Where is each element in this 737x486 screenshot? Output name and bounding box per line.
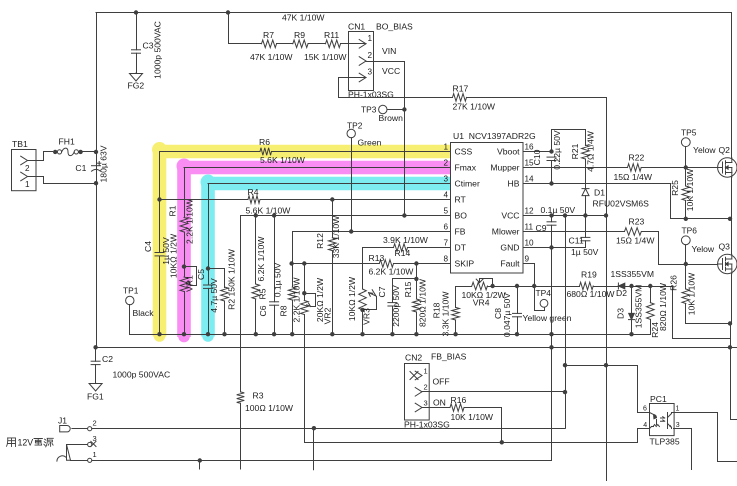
resistor R18 bbox=[432, 287, 472, 337]
wire primary ground rail bbox=[93, 345, 737, 349]
wire fuse to bus bbox=[81, 150, 99, 154]
svg-text:TP2: TP2 bbox=[347, 121, 363, 131]
svg-text:D2: D2 bbox=[616, 288, 627, 298]
resistor R19 bbox=[567, 270, 616, 299]
svg-text:OFF: OFF bbox=[433, 376, 450, 386]
svg-text:1: 1 bbox=[443, 143, 448, 152]
resistor R13 bbox=[369, 253, 415, 276]
svg-text:VCC: VCC bbox=[382, 66, 400, 76]
wire analog ground rail bbox=[130, 334, 651, 336]
svg-text:1: 1 bbox=[25, 180, 30, 189]
svg-text:Black: Black bbox=[133, 308, 155, 318]
svg-text:R14: R14 bbox=[395, 248, 411, 258]
svg-text:Yellow green: Yellow green bbox=[523, 313, 572, 323]
svg-text:33K 1/10W: 33K 1/10W bbox=[331, 215, 341, 258]
svg-text:1: 1 bbox=[676, 406, 680, 413]
svg-text:GND: GND bbox=[500, 243, 519, 253]
svg-text:6.2K 1/10W: 6.2K 1/10W bbox=[369, 266, 415, 276]
svg-text:R23: R23 bbox=[629, 216, 645, 226]
svg-text:C5: C5 bbox=[196, 269, 206, 280]
wire PC1 pin3 output bbox=[674, 429, 692, 470]
resistor R4 bbox=[246, 187, 292, 216]
wire R17 to VCC rail vertical bbox=[467, 98, 607, 216]
svg-text:820Ω 1/10W: 820Ω 1/10W bbox=[418, 278, 428, 327]
wire BO to R3 vertical bbox=[240, 216, 242, 470]
resistor R21 bbox=[570, 130, 596, 188]
svg-text:R8: R8 bbox=[279, 305, 289, 316]
capacitor C4 bbox=[143, 237, 171, 265]
wire FB left vertical to SKIP bbox=[292, 232, 294, 264]
svg-text:2: 2 bbox=[443, 159, 448, 168]
wire R23 to Q3 gate bbox=[642, 232, 718, 267]
potentiometer VR3 bbox=[347, 248, 377, 337]
svg-text:TP6: TP6 bbox=[682, 226, 698, 236]
U1 pin 6 FB bbox=[443, 223, 465, 237]
svg-text:5.6K 1/10W: 5.6K 1/10W bbox=[246, 206, 292, 216]
wire 12V feed vertical x565 bbox=[563, 216, 567, 429]
resistor R2 bbox=[209, 248, 237, 336]
svg-text:TP4: TP4 bbox=[536, 288, 552, 298]
svg-text:47K 1/10W: 47K 1/10W bbox=[250, 52, 293, 62]
svg-text:3: 3 bbox=[93, 434, 97, 443]
svg-text:R6: R6 bbox=[259, 137, 270, 147]
svg-text:TP1: TP1 bbox=[123, 285, 139, 295]
test point TP4 bbox=[523, 287, 572, 324]
svg-text:1000p 500VAC: 1000p 500VAC bbox=[153, 21, 163, 79]
svg-text:4.7µ 50V: 4.7µ 50V bbox=[209, 278, 219, 313]
svg-text:R25: R25 bbox=[670, 180, 680, 196]
highlight cyan Ctimer net bbox=[201, 175, 452, 342]
svg-text:8: 8 bbox=[443, 255, 448, 264]
opto-coupler PC1 TLP385 bbox=[643, 394, 680, 447]
resistor R25 bbox=[670, 168, 695, 222]
svg-text:3: 3 bbox=[443, 175, 448, 184]
svg-text:SKIP: SKIP bbox=[455, 259, 475, 269]
svg-text:TLP385: TLP385 bbox=[650, 437, 680, 447]
op-amp U1 NCV1397ADR2G controller bbox=[451, 131, 536, 273]
resistor R24 bbox=[647, 282, 668, 338]
potentiometer VR2 bbox=[301, 264, 333, 443]
U1 pin 10 GND bbox=[500, 239, 534, 253]
wire feedback line y442 bbox=[305, 442, 638, 444]
svg-text:2.2K 1/10W: 2.2K 1/10W bbox=[291, 277, 301, 323]
svg-text:Q3: Q3 bbox=[719, 242, 731, 252]
wire CSS vertical yellow bbox=[159, 152, 161, 335]
svg-text:R4: R4 bbox=[248, 187, 259, 197]
resistor R9 bbox=[282, 13, 325, 48]
wire R7-R9 bbox=[277, 43, 293, 45]
capacitor C5 bbox=[196, 269, 219, 313]
svg-text:10KΩ 1/2W: 10KΩ 1/2W bbox=[347, 276, 357, 321]
svg-text:TP5: TP5 bbox=[681, 127, 697, 137]
resistor R3 bbox=[237, 390, 294, 413]
wire Mupper pin15 to R22 bbox=[523, 167, 628, 169]
svg-text:3: 3 bbox=[368, 68, 373, 77]
wire main HV bus top bbox=[96, 12, 732, 14]
resistor R26 bbox=[669, 264, 733, 326]
svg-text:R22: R22 bbox=[629, 153, 645, 163]
svg-text:Mupper: Mupper bbox=[490, 163, 519, 173]
wire CSS net pin1 bbox=[160, 151, 451, 153]
wire bus to R7 bbox=[226, 10, 262, 43]
svg-text:1: 1 bbox=[93, 450, 97, 459]
svg-text:R26: R26 bbox=[669, 275, 679, 291]
node CSS-rail bbox=[157, 332, 161, 336]
svg-text:5: 5 bbox=[443, 207, 448, 216]
resistor R14 bbox=[383, 235, 429, 258]
wire Mlower pin11 to R23 bbox=[523, 231, 625, 233]
svg-text:HB: HB bbox=[508, 179, 520, 189]
wire FB net pin6 bbox=[293, 231, 451, 233]
wire TB1 pin2 to fuse bbox=[37, 152, 53, 161]
resistor R12 bbox=[315, 197, 341, 336]
wire GND vertical down bbox=[549, 248, 553, 461]
wire Fault line bbox=[493, 287, 731, 339]
test point TP2 bbox=[347, 121, 382, 234]
resistor R8 bbox=[279, 264, 302, 337]
svg-text:C7: C7 bbox=[377, 286, 387, 297]
svg-text:D3: D3 bbox=[615, 308, 625, 319]
capacitor C1 electrolytic bbox=[75, 145, 108, 182]
svg-text:R9: R9 bbox=[294, 30, 305, 40]
resistor R1 bbox=[168, 198, 195, 244]
svg-text:C4: C4 bbox=[143, 241, 153, 252]
wire Fault pin9 stub bbox=[524, 264, 537, 289]
svg-text:PH-1x03SG: PH-1x03SG bbox=[404, 419, 450, 429]
highlight magenta Fmax net bbox=[177, 159, 452, 343]
resistor R6 bbox=[259, 137, 306, 165]
wire PC1 pin1 output bbox=[674, 413, 737, 462]
svg-text:2: 2 bbox=[25, 164, 30, 173]
svg-text:47K 1/10W: 47K 1/10W bbox=[282, 13, 325, 23]
svg-text:R1: R1 bbox=[168, 205, 178, 216]
svg-text:VIN: VIN bbox=[382, 46, 396, 56]
svg-text:180µ 63V: 180µ 63V bbox=[99, 145, 109, 182]
svg-text:0.1µ 50V: 0.1µ 50V bbox=[541, 205, 576, 215]
ground FG1 bbox=[87, 383, 104, 401]
svg-text:FB_BIAS: FB_BIAS bbox=[431, 351, 467, 361]
wire CN1 pin3 to R17 bbox=[339, 78, 453, 98]
svg-text:7: 7 bbox=[443, 239, 448, 248]
svg-text:27K 1/10W: 27K 1/10W bbox=[453, 102, 496, 112]
svg-text:Yelow: Yelow bbox=[693, 145, 716, 155]
wire Ctimer vertical cyan bbox=[206, 184, 210, 337]
svg-text:R17: R17 bbox=[453, 83, 469, 93]
capacitor C3 bbox=[132, 10, 163, 79]
resistor R17 bbox=[453, 83, 496, 111]
svg-text:VR2: VR2 bbox=[323, 307, 333, 324]
resistor R16 bbox=[429, 395, 494, 422]
wire BO net pin5 bbox=[241, 215, 451, 217]
svg-text:3: 3 bbox=[676, 422, 680, 429]
wire R11 to CN1 pin1 bbox=[341, 43, 349, 45]
wire Fmax vertical magenta bbox=[182, 168, 186, 337]
svg-text:RFU02VSM6S: RFU02VSM6S bbox=[593, 198, 650, 208]
svg-text:Fault: Fault bbox=[500, 259, 520, 269]
svg-text:1000p 500VAC: 1000p 500VAC bbox=[113, 369, 171, 379]
wire R9-R11 bbox=[308, 43, 326, 45]
wire GND pin10 line bbox=[523, 247, 585, 249]
U1 pin 7 DT bbox=[443, 239, 466, 253]
wire Vboot pin16 bbox=[523, 130, 586, 154]
svg-text:0.047µ 50V: 0.047µ 50V bbox=[502, 293, 512, 337]
capacitor C7 bbox=[377, 279, 417, 337]
U1 pin 1 CSS bbox=[443, 143, 472, 157]
svg-text:10: 10 bbox=[525, 239, 535, 248]
svg-text:Fmax: Fmax bbox=[455, 163, 477, 173]
capacitor C2 bbox=[91, 347, 170, 383]
svg-text:0.22µ 50V: 0.22µ 50V bbox=[552, 130, 562, 170]
svg-text:PC1: PC1 bbox=[650, 394, 667, 404]
svg-text:1: 1 bbox=[368, 34, 373, 43]
capacitor C10 bbox=[532, 130, 562, 186]
svg-text:BO_BIAS: BO_BIAS bbox=[376, 22, 413, 32]
wire R17 rail down to bottom bbox=[606, 216, 608, 482]
U1 pin 11 Mlower bbox=[492, 223, 534, 237]
svg-text:C6: C6 bbox=[258, 305, 268, 316]
ground FG2 bbox=[128, 73, 145, 91]
transistor Q2 bbox=[693, 145, 737, 177]
connector CN2 FB_BIAS bbox=[404, 351, 467, 429]
resistor R23 bbox=[616, 216, 655, 245]
svg-text:R2 150K 1/10W: R2 150K 1/10W bbox=[227, 248, 237, 310]
wire Ctimer net pin3 bbox=[208, 183, 451, 185]
svg-text:FG1: FG1 bbox=[87, 391, 104, 401]
svg-text:TP3: TP3 bbox=[361, 104, 377, 114]
U1 pin 5 BO bbox=[443, 207, 467, 221]
svg-text:5.6K 1/10W: 5.6K 1/10W bbox=[260, 155, 306, 165]
svg-text:10KΩ 1/2W: 10KΩ 1/2W bbox=[168, 233, 178, 278]
wire Q3 drain bbox=[731, 219, 733, 255]
svg-text:1SS355VM: 1SS355VM bbox=[634, 285, 644, 328]
svg-text:2: 2 bbox=[424, 383, 428, 392]
svg-text:100Ω 1/10W: 100Ω 1/10W bbox=[245, 403, 294, 413]
svg-text:6: 6 bbox=[643, 406, 647, 413]
svg-text:Green: Green bbox=[358, 138, 382, 148]
svg-text:0.1µ 50V: 0.1µ 50V bbox=[272, 262, 282, 297]
svg-text:C1: C1 bbox=[75, 163, 86, 173]
svg-text:FH1: FH1 bbox=[59, 137, 75, 147]
test point TP1 bbox=[123, 285, 154, 334]
wire J1 pin2 12V line bbox=[92, 426, 565, 470]
U1 pin 8 SKIP bbox=[443, 255, 474, 269]
svg-text:FB: FB bbox=[455, 227, 466, 237]
wire RT net pin4 bbox=[157, 197, 450, 201]
svg-text:1µ 50V: 1µ 50V bbox=[571, 247, 599, 257]
svg-text:10K 1/10W: 10K 1/10W bbox=[687, 272, 697, 315]
wire right HV vertical to Q2 drain bbox=[731, 13, 733, 159]
svg-text:3.3K 1/10W: 3.3K 1/10W bbox=[441, 291, 451, 337]
svg-text:12V: 12V bbox=[18, 438, 34, 448]
terminal block TB1 bbox=[12, 139, 37, 191]
svg-text:10K 1/10W: 10K 1/10W bbox=[451, 412, 494, 422]
svg-text:11: 11 bbox=[525, 223, 534, 232]
svg-text:Vboot: Vboot bbox=[497, 147, 520, 157]
resistor R22 bbox=[614, 153, 653, 182]
svg-text:4.7Ω 1/4W: 4.7Ω 1/4W bbox=[586, 130, 596, 172]
capacitor C9 bbox=[536, 216, 557, 250]
resistor R11 bbox=[304, 30, 347, 62]
potentiometer VR4 bbox=[462, 279, 507, 308]
svg-text:3.9K 1/10W: 3.9K 1/10W bbox=[383, 235, 429, 245]
wire VCC pin12 line bbox=[523, 205, 608, 218]
resistor R5 bbox=[252, 213, 268, 336]
svg-text:4: 4 bbox=[643, 422, 647, 429]
test point TP3 bbox=[361, 104, 407, 123]
svg-text:R5: R5 bbox=[258, 288, 268, 299]
svg-text:Ctimer: Ctimer bbox=[455, 179, 480, 189]
svg-text:R19: R19 bbox=[581, 270, 597, 280]
svg-text:R21: R21 bbox=[570, 143, 580, 159]
svg-text:Mlower: Mlower bbox=[492, 227, 520, 237]
U1 pin 3 Ctimer bbox=[443, 175, 480, 189]
svg-text:VCC: VCC bbox=[501, 211, 519, 221]
wire CN1 pin2 VCC down to TP3 node bbox=[374, 62, 405, 216]
U1 pin 15 Mupper bbox=[490, 159, 534, 173]
wire PC1 pin6 bbox=[638, 412, 650, 414]
svg-text:VR3: VR3 bbox=[362, 308, 372, 325]
svg-text:3: 3 bbox=[424, 399, 428, 408]
wire left input vertical bbox=[96, 13, 98, 348]
svg-text:RT: RT bbox=[455, 195, 467, 205]
svg-text:J1: J1 bbox=[58, 416, 67, 426]
wire R22 to Q2 gate bbox=[641, 165, 718, 169]
U1 pin 4 RT bbox=[443, 191, 466, 205]
resistor R15 bbox=[403, 264, 428, 337]
svg-text:6: 6 bbox=[443, 223, 448, 232]
fuse FH1 bbox=[53, 137, 83, 156]
wire Fmax net pin2 bbox=[184, 167, 451, 169]
node BO TP3 branch bbox=[402, 213, 406, 217]
svg-text:ON: ON bbox=[433, 398, 446, 408]
svg-text:R12: R12 bbox=[315, 233, 325, 249]
svg-text:C11: C11 bbox=[569, 235, 584, 245]
wire DT net pin7 bbox=[363, 247, 451, 249]
wire J1 pin1 ground line bbox=[92, 458, 552, 469]
U1 pin 12 VCC bbox=[501, 207, 534, 221]
test point TP6 bbox=[681, 226, 697, 264]
svg-text:820Ω 1/10W: 820Ω 1/10W bbox=[658, 282, 668, 331]
svg-text:BO: BO bbox=[455, 211, 468, 221]
svg-text:1SS355VM: 1SS355VM bbox=[611, 269, 654, 279]
svg-text:2200p 50V: 2200p 50V bbox=[391, 285, 401, 327]
U1 pin 9 Fault bbox=[500, 255, 529, 269]
diode D2 bbox=[611, 269, 654, 298]
capacitor C6 bbox=[258, 213, 282, 336]
svg-text:9: 9 bbox=[525, 255, 530, 264]
wire Q3 source down bbox=[728, 274, 737, 420]
svg-text:Yelow: Yelow bbox=[692, 244, 715, 254]
svg-text:FG2: FG2 bbox=[128, 81, 145, 91]
resistor R7 bbox=[250, 30, 293, 62]
svg-text:VR4: VR4 bbox=[473, 297, 490, 307]
wire TB1 pin1 to bus bbox=[37, 177, 99, 186]
capacitor C8 bbox=[493, 284, 522, 337]
svg-text:6.2K 1/10W: 6.2K 1/10W bbox=[256, 236, 266, 282]
svg-text:C10: C10 bbox=[532, 149, 542, 165]
svg-text:CSS: CSS bbox=[455, 147, 473, 157]
svg-text:CN2: CN2 bbox=[405, 353, 422, 363]
wire PC1 pin4 bbox=[638, 429, 650, 443]
svg-text:VR1: VR1 bbox=[185, 275, 195, 292]
svg-text:R3: R3 bbox=[253, 390, 264, 400]
svg-text:D1: D1 bbox=[594, 188, 605, 198]
svg-text:R7: R7 bbox=[263, 30, 274, 40]
svg-text:C2: C2 bbox=[102, 354, 113, 364]
svg-text:2: 2 bbox=[368, 51, 373, 60]
svg-text:15K 1/10W: 15K 1/10W bbox=[304, 52, 347, 62]
svg-text:12: 12 bbox=[525, 207, 535, 216]
wire R16 to feedback line bbox=[465, 408, 504, 445]
transistor Q3 bbox=[692, 242, 737, 274]
diode D3 bbox=[615, 284, 643, 337]
potentiometer VR1 bbox=[168, 233, 196, 292]
wire HB pin14 to half-bridge node bbox=[523, 184, 732, 222]
svg-text:Q2: Q2 bbox=[719, 145, 731, 155]
svg-text:Brown: Brown bbox=[379, 113, 404, 123]
svg-text:TB1: TB1 bbox=[12, 139, 28, 149]
diode D1 bbox=[582, 188, 649, 216]
svg-text:2: 2 bbox=[93, 419, 97, 428]
svg-text:CN1: CN1 bbox=[348, 22, 365, 32]
wire CN2 pin2 line bbox=[429, 391, 565, 393]
svg-text:14: 14 bbox=[525, 175, 535, 184]
svg-text:R11: R11 bbox=[324, 30, 339, 40]
label 12V supply 用12V電源 bbox=[7, 438, 54, 448]
U1 pin 2 Fmax bbox=[443, 159, 476, 173]
highlight yellow CSS net bbox=[152, 142, 451, 342]
svg-text:15Ω 1/4W: 15Ω 1/4W bbox=[616, 236, 655, 246]
test point TP5 bbox=[681, 127, 697, 167]
capacitor C11 bbox=[569, 216, 599, 257]
svg-text:680Ω 1/10W: 680Ω 1/10W bbox=[567, 289, 616, 299]
svg-text:R15: R15 bbox=[403, 281, 413, 297]
wire SKIP net pin8 bbox=[289, 261, 450, 265]
svg-text:2.2K 1/10W: 2.2K 1/10W bbox=[185, 198, 195, 244]
svg-text:1: 1 bbox=[424, 367, 428, 376]
svg-text:15Ω 1/4W: 15Ω 1/4W bbox=[614, 172, 653, 182]
svg-text:R13: R13 bbox=[369, 253, 385, 263]
svg-text:DT: DT bbox=[455, 243, 467, 253]
connector J1 12V input bbox=[57, 416, 97, 463]
svg-text:4: 4 bbox=[443, 191, 448, 200]
svg-text:R16: R16 bbox=[451, 395, 467, 405]
wire VCC aux line y365 bbox=[566, 363, 638, 413]
U1 pin 14 HB bbox=[508, 175, 535, 189]
svg-text:U1 NCV1397ADR2G: U1 NCV1397ADR2G bbox=[453, 131, 536, 141]
svg-text:10K 1/10W: 10K 1/10W bbox=[685, 168, 695, 211]
connector CN1 BO_BIAS bbox=[348, 22, 413, 100]
U1 pin 16 Vboot bbox=[497, 143, 534, 157]
wire Q2 source down bbox=[731, 177, 733, 219]
